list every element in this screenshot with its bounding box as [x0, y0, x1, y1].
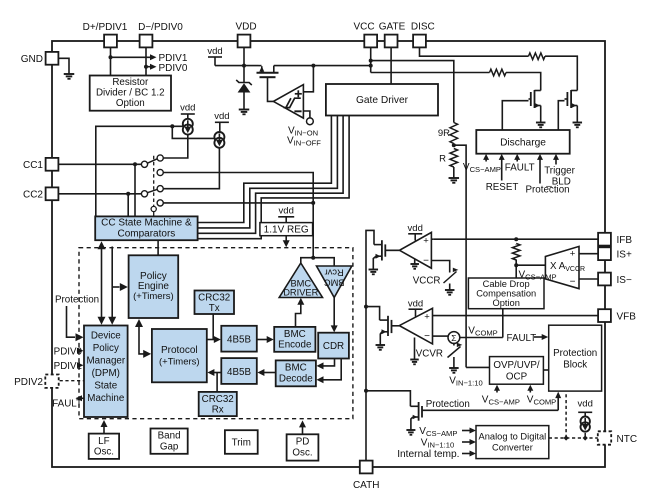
nmos Q5 error amp input: [387, 316, 389, 336]
wire: VCS-AMP into OVP: [496, 389, 498, 393]
wire: comparator output to pmos gate: [268, 79, 274, 101]
wire: CC SM to current source node: [96, 126, 183, 216]
wire: error amp minus to sigma: [433, 335, 449, 337]
pin IS+: [598, 247, 611, 260]
wire: 9R top segment: [453, 121, 455, 124]
svg-text:IFB: IFB: [617, 235, 633, 246]
wire: current source I1 output to switch contact A: [163, 135, 187, 159]
svg-text:D+/PDIV1: D+/PDIV1: [83, 22, 128, 33]
amplifier: BMC receiver (triangle down): [317, 266, 352, 298]
svg-text:OCP: OCP: [506, 372, 528, 383]
wire: sigma to VCOMP node: [460, 337, 503, 339]
ground below Q5: [376, 344, 386, 346]
svg-text:vdd: vdd: [408, 298, 423, 309]
svg-text:Tx: Tx: [209, 303, 220, 314]
svg-text:OVP/UVP/: OVP/UVP/: [493, 360, 540, 371]
wire: R bottom to ground: [453, 167, 455, 178]
wire: IFB feedback line: [433, 238, 598, 240]
wire: CC SM / DPM link: [101, 243, 103, 321]
svg-text:Gap: Gap: [160, 442, 179, 453]
nmos Q4 VCONN pass fet: [381, 240, 383, 260]
svg-text:CC1: CC1: [23, 160, 43, 171]
svg-text:Compensation: Compensation: [476, 288, 536, 298]
svg-text:Internal temp.: Internal temp.: [397, 449, 459, 460]
ground below VCVR ref: [449, 367, 459, 369]
svg-text:CRC32: CRC32: [198, 292, 230, 303]
wire: vdd rail to VDD node and comparator: [208, 56, 222, 58]
svg-text:Device: Device: [91, 331, 121, 342]
wire: policy engine / protocol link: [139, 322, 146, 354]
wire: VDD pin lead: [243, 47, 245, 66]
wire: discharge control arrows: [485, 158, 487, 162]
wire: DPM to policy engine: [112, 286, 119, 288]
pin DISC: [413, 35, 426, 48]
svg-text:+: +: [424, 311, 430, 322]
nmos Q1 discharge: [530, 92, 532, 106]
block: Device Policy Manager (DPM) State Machine: [84, 326, 128, 418]
wire: decode path to CRC32 Rx: [216, 373, 218, 392]
nmos Q6 protection discharge: [418, 402, 420, 421]
svg-text:−: −: [424, 331, 430, 342]
wire: VCCR opamp plus input to IFB line: [431, 238, 433, 240]
svg-text:Protection: Protection: [526, 185, 570, 196]
resistor 9R: [450, 123, 458, 144]
svg-text:Option: Option: [116, 98, 145, 109]
block: Cable Drop Compensation Option: [468, 278, 544, 309]
wire: current source I2 output to switch contact C: [163, 148, 219, 188]
svg-text:CC2: CC2: [23, 190, 43, 201]
switch S2 CC2: [141, 191, 147, 197]
wire: CC2 pin to switch: [58, 193, 141, 195]
svg-text:4B5B: 4B5B: [227, 367, 251, 378]
svg-text:(DPM): (DPM): [92, 368, 120, 379]
wire: BMC encode to BMC driver: [296, 303, 301, 327]
svg-text:DRIVER: DRIVER: [283, 288, 318, 298]
svg-text:Divider / BC 1.2: Divider / BC 1.2: [96, 88, 165, 99]
svg-text:Block: Block: [563, 360, 587, 371]
svg-text:Gate Driver: Gate Driver: [356, 95, 409, 106]
svg-text:State: State: [94, 380, 117, 391]
resistor R: [450, 149, 458, 168]
pin VCC: [364, 35, 377, 48]
svg-text:BMC: BMC: [284, 329, 306, 340]
node: VIN-ON/OFF terminal circle: [307, 118, 314, 125]
block: Trim: [225, 430, 258, 454]
wire: FAULT into protection block: [534, 336, 543, 338]
wire: CATH rail: [366, 230, 374, 460]
svg-text:VCC: VCC: [353, 22, 374, 33]
wire: 4B5B to protocol: [213, 372, 222, 374]
wire: PD oscillator into core: [302, 426, 304, 435]
svg-text:Resistor: Resistor: [112, 77, 149, 88]
wire: IS- input: [579, 278, 598, 280]
pin IS-: [598, 273, 611, 286]
pin GATE: [385, 35, 398, 48]
svg-text:PDIV0: PDIV0: [54, 347, 83, 358]
wire: comparator plus input: [303, 66, 313, 92]
zener diode D1 at VDD: [236, 80, 252, 85]
wire: FAULT output of DPM: [77, 397, 85, 399]
block: 4B5B encode: [221, 326, 256, 352]
wire: protection fet branch from CATH: [366, 391, 410, 401]
block: Band Gap: [151, 429, 188, 454]
wire: zener top lead: [243, 66, 245, 83]
svg-text:VCVR: VCVR: [416, 349, 443, 360]
wire: PDIV1 tap: [111, 56, 151, 58]
wire: X AVCCR output: [516, 264, 545, 266]
block: 4B5B decode: [221, 358, 256, 384]
wire: protection signal into DPM: [67, 306, 76, 337]
svg-text:LF: LF: [98, 436, 109, 447]
ground below Q2: [573, 122, 583, 124]
svg-text:Discharge: Discharge: [500, 137, 546, 148]
wire: 4B5B to BMC encode: [257, 339, 268, 341]
svg-text:Σ: Σ: [451, 333, 456, 343]
variable reference VCVR: [448, 347, 461, 358]
wire: protocol to 4B5B encoder: [207, 339, 216, 341]
svg-text:Trim: Trim: [232, 437, 251, 448]
block: Resistor Divider / BC 1.2 Option: [90, 76, 171, 111]
svg-text:Policy: Policy: [93, 343, 119, 354]
pin CC1: [46, 158, 59, 171]
svg-text:Trigger: Trigger: [544, 166, 575, 177]
wire: BMC receiver to CDR: [333, 298, 335, 328]
svg-text:CDR: CDR: [323, 341, 344, 352]
svg-text:VDD: VDD: [235, 22, 256, 33]
svg-text:VFB: VFB: [617, 311, 637, 322]
pin VFB: [598, 309, 611, 322]
wire: PDIV0 tap: [146, 66, 151, 68]
sense resistor R5 on IFB: [512, 244, 520, 261]
wire: VCCR reference to ground: [449, 284, 451, 291]
block: CC State Machine and Comparators: [95, 216, 197, 240]
svg-text:vdd: vdd: [408, 223, 423, 234]
svg-text:RESET: RESET: [486, 182, 519, 193]
block: Protection Block: [549, 325, 602, 391]
wire: GATE pin lead to gate driver: [390, 47, 392, 84]
pin GND: [46, 52, 59, 65]
wire: VIN-1:10 to OVP/UVP: [466, 366, 489, 368]
wire: PDIV2 dashed input to DPM: [60, 380, 84, 382]
svg-text:Protection: Protection: [553, 348, 597, 359]
wire: 9R/R divider tap to VIN-1:10: [454, 145, 466, 367]
svg-text:FAULT: FAULT: [52, 399, 82, 410]
svg-text:Encode: Encode: [278, 340, 312, 351]
svg-text:GATE: GATE: [379, 22, 406, 33]
wire: policy engine / DPM link: [111, 247, 113, 322]
amplifier U5 X AVCCR: [545, 246, 579, 288]
amplifier: BMC driver (triangle up): [279, 263, 322, 298]
wire: VCCR opamp minus to VCCR reference: [431, 261, 449, 273]
svg-text:FAULT: FAULT: [505, 163, 535, 174]
block: Analog to Digital Converter: [476, 426, 549, 459]
wire: ganged switch control dashed link: [153, 156, 155, 206]
svg-text:vdd: vdd: [214, 111, 229, 122]
svg-text:Rx: Rx: [212, 405, 224, 416]
ground below Q4: [369, 269, 379, 271]
wire: error amp fet branch: [366, 307, 380, 321]
block: 1.1V REG: [260, 223, 313, 236]
wire: cable drop compensation to VCOMP: [502, 309, 504, 338]
resistor R4 in DISC path: [529, 53, 546, 60]
opamp U4 error amplifier: [399, 308, 432, 344]
wire: CC1 pin to switch: [58, 163, 141, 165]
svg-text:Analog to Digital: Analog to Digital: [479, 432, 547, 442]
ground at opamp U3: [414, 260, 416, 265]
svg-text:Protocol: Protocol: [161, 345, 198, 356]
wire: discharge fet Q2 gate: [558, 101, 564, 130]
svg-text:Band: Band: [158, 431, 181, 442]
wire: BMC decode to 4B5B: [263, 372, 276, 374]
wire: sense resistor to VCS-AMP node: [515, 243, 517, 246]
wire: GND pin to ground: [58, 58, 69, 74]
svg-text:CRC32: CRC32: [202, 394, 234, 405]
ground at opamp U4: [414, 338, 416, 360]
pin D+/PDIV1: [104, 35, 117, 48]
block: CRC32 Tx: [195, 291, 235, 315]
svg-text:BMC: BMC: [324, 278, 345, 288]
block: Protocol (+Timers): [152, 329, 207, 382]
wire: VCC to 9R divider: [371, 61, 454, 122]
ground below VCCR ref: [445, 289, 455, 291]
ground below Q6: [406, 429, 415, 431]
wire: 1.1V REG output into digital core: [285, 236, 287, 242]
wire: LF oscillator into core: [103, 425, 105, 434]
svg-text:PDIV0: PDIV0: [159, 63, 188, 74]
ground below zener D1: [239, 109, 250, 111]
svg-text:FAULT: FAULT: [507, 333, 537, 344]
svg-text:BMC: BMC: [285, 363, 307, 374]
svg-text:−: −: [423, 255, 429, 266]
variable reference VCCR: [444, 272, 457, 284]
svg-text:(+Timers): (+Timers): [159, 357, 200, 368]
svg-text:Osc.: Osc.: [292, 448, 312, 459]
block: Policy Engine (+Timers): [129, 255, 179, 318]
block: Discharge: [476, 130, 569, 154]
pin VDD: [238, 35, 251, 48]
wire: VFB line to error amp: [433, 315, 599, 317]
svg-text:(+Timers): (+Timers): [133, 291, 174, 302]
svg-text:NTC: NTC: [617, 434, 638, 445]
svg-text:PDIV2: PDIV2: [14, 377, 43, 388]
block: CDR: [318, 333, 349, 359]
switch S1 CC1: [141, 161, 147, 167]
svg-text:Option: Option: [492, 298, 519, 308]
wire: current source node to source I2: [172, 126, 214, 138]
svg-text:−: −: [570, 276, 576, 287]
svg-text:DISC: DISC: [411, 22, 435, 33]
svg-text:PDIV1: PDIV1: [54, 361, 82, 372]
svg-text:CATH: CATH: [353, 480, 379, 491]
svg-text:IS+: IS+: [617, 250, 632, 261]
opamp U3 VCCR: [400, 232, 432, 268]
wire: PDIV1 input to DPM: [77, 362, 84, 368]
wire: PDIV0 input to DPM: [76, 350, 78, 352]
svg-text:GND: GND: [21, 54, 43, 65]
block: LF Osc: [89, 434, 119, 459]
wire: CDR clock to BMC decode: [323, 359, 342, 380]
wire: NTC sense to protection block dashed: [565, 392, 567, 438]
svg-text:IS−: IS−: [617, 275, 632, 286]
vdd at opamp U4: [409, 308, 423, 310]
svg-text:Protection: Protection: [55, 295, 99, 306]
ground below R: [449, 177, 460, 179]
wire: CDR data to BMC decode: [323, 359, 335, 366]
resistor R3 in VCC discharge path: [490, 69, 507, 76]
svg-text:D−/PDIV0: D−/PDIV0: [138, 22, 183, 33]
wire: discharge fet Q1 gate: [502, 101, 528, 130]
block: PD Osc: [287, 434, 319, 460]
svg-text:1.1V REG: 1.1V REG: [264, 225, 309, 236]
svg-text:VCCR: VCCR: [413, 276, 441, 287]
svg-text:vdd: vdd: [279, 206, 294, 217]
wire: BMC driver/receiver common: [301, 258, 334, 266]
vdd at opamp U3: [408, 233, 422, 235]
wire: IS+ input: [579, 253, 598, 255]
wire: CC1 sense into CC state machine: [134, 164, 136, 216]
current source I1: [181, 113, 195, 115]
block: OVP/UVP/OCP: [490, 357, 544, 385]
pin IFB: [598, 233, 611, 246]
svg-text:R: R: [439, 154, 446, 165]
wire: CC2 sense into CC state machine: [127, 194, 129, 217]
wire: CRC32 Tx to encoder path: [212, 314, 214, 340]
pin PDIV2 (dashed): [45, 375, 58, 388]
wire: VCOMP into OVP: [529, 389, 531, 393]
wire: VCC to discharge fet Q1 drain: [371, 72, 490, 74]
wire: sigma to VCVR reference: [453, 343, 455, 346]
ground below Q1: [536, 122, 546, 124]
comparator U2 with hysteresis: [273, 85, 303, 119]
wire: D+ lead down to divider box: [110, 47, 112, 76]
svg-text:+: +: [570, 248, 576, 259]
wire: vdd to 1.1V REG: [278, 216, 294, 218]
ground at GND pin: [64, 73, 75, 75]
summing node sigma: [448, 332, 460, 344]
svg-text:+: +: [423, 236, 429, 247]
wire: CC SM to policy engine: [157, 240, 159, 255]
nmos Q2 discharge: [566, 92, 568, 106]
wire: switch contact B to BMC line: [163, 173, 313, 258]
svg-text:Rcvr: Rcvr: [325, 268, 344, 278]
pin CC2: [46, 187, 59, 200]
wire: NTC bias from current source dashed: [584, 433, 586, 438]
pmos Q3 vdd switch: [259, 65, 262, 67]
svg-text:vdd: vdd: [207, 46, 222, 57]
svg-text:PD: PD: [296, 437, 310, 448]
block: CRC32 Rx: [199, 392, 237, 416]
wire: pmos drain to vcc node: [274, 65, 371, 67]
digital core boundary (dashed): [79, 248, 353, 419]
current source I2: [215, 121, 229, 123]
block: BMC Encode: [274, 327, 315, 352]
wire: D- lead down to divider box: [145, 47, 147, 76]
svg-text:Converter: Converter: [492, 443, 533, 453]
svg-text:Osc.: Osc.: [94, 447, 114, 458]
wire: gate driver to CC state machine bus line 2: [198, 116, 338, 228]
wire: OVP/UVP to protection block: [543, 369, 548, 371]
pin CATH: [360, 461, 373, 474]
chip boundary: [52, 41, 605, 467]
wire: switch contact D to BMC line: [163, 202, 313, 204]
svg-text:Machine: Machine: [87, 393, 125, 404]
svg-text:4B5B: 4B5B: [227, 335, 251, 346]
svg-text:Comparators: Comparators: [117, 229, 175, 240]
wire: ADC input arrows: [462, 430, 471, 432]
wire: vdd stem for NTC source: [584, 412, 586, 416]
wire: protection signal up to protection block: [557, 397, 559, 411]
pin NTC (dashed): [598, 431, 611, 444]
wire: protection fet gate line: [422, 409, 558, 411]
wire: gate driver to CC state machine bus line 1: [198, 116, 332, 223]
block: BMC Decode: [276, 360, 316, 386]
svg-text:Protection: Protection: [426, 399, 470, 410]
current source I3 NTC bias: [578, 411, 592, 413]
wire: ADC to NTC dashed: [549, 437, 598, 439]
pin D-/PDIV0: [140, 35, 153, 48]
svg-text:vdd: vdd: [578, 399, 593, 410]
block: Gate Driver: [326, 84, 438, 116]
svg-text:Manager: Manager: [86, 355, 125, 366]
svg-text:Decode: Decode: [279, 374, 313, 385]
wire: gate driver to CC state machine bus line 3: [198, 116, 344, 234]
wire: gate driver to CC state machine bus line 4: [198, 116, 350, 239]
wire: VCCR opamp output to pass fet gate: [385, 249, 399, 251]
wire: VCC pin lead: [370, 47, 372, 73]
svg-text:vdd: vdd: [180, 103, 195, 114]
wire: DISC pin lead: [420, 47, 529, 56]
svg-text:9R: 9R: [438, 128, 450, 139]
wire: comparator minus to VIN sense point: [303, 111, 310, 118]
svg-text:CC State Machine &: CC State Machine &: [101, 218, 192, 229]
